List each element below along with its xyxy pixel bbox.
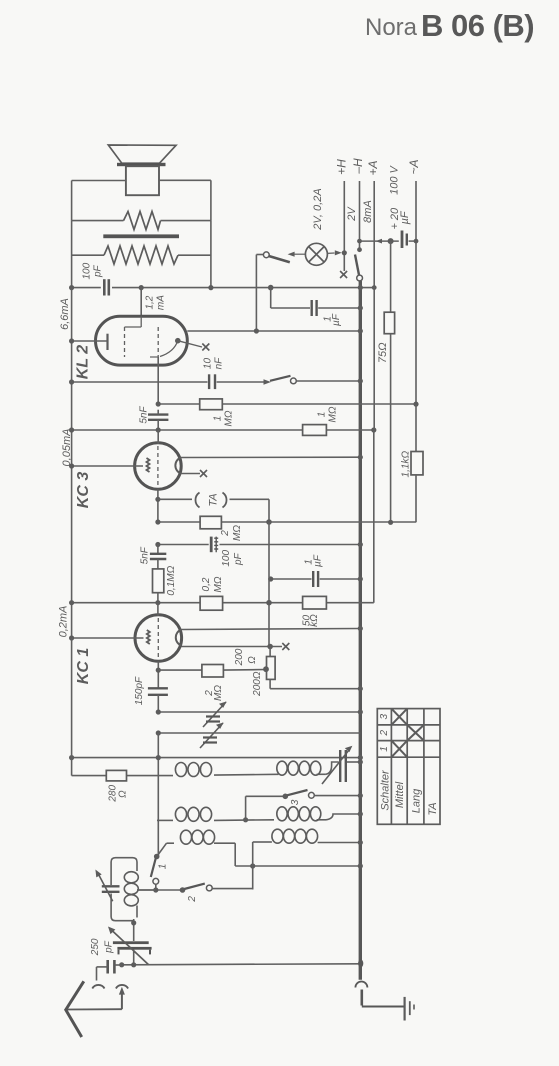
svg-text:nF: nF (214, 357, 225, 370)
svg-text:2V, 0,2A: 2V, 0,2A (312, 188, 324, 230)
svg-text:100 V: 100 V (388, 164, 400, 194)
svg-text:kΩ: kΩ (309, 614, 320, 627)
KC3 grid pin and dashes (157, 430, 159, 444)
antenna coil (vertical) (124, 872, 138, 906)
capacitor 1uF no.2 (312, 571, 314, 587)
speaker horn (108, 145, 176, 163)
capacitor 250pF series antenna (106, 960, 109, 974)
vertical x=158: 5nF no.2 and 0,1 MOhm chain (157, 545, 159, 554)
resistor 280 Ohm (106, 770, 126, 781)
wire bus to ground (362, 1006, 404, 1008)
switch -H to bus (357, 247, 362, 252)
wire y=712 (tuning cap row 1) (158, 711, 360, 713)
wire y=544.5 with 100pF (158, 544, 209, 546)
coil row B right (277, 807, 321, 821)
x mark KL2 top cap (202, 344, 209, 351)
svg-text:150pF: 150pF (134, 676, 145, 705)
resistor 1 MOhm no.2 (303, 425, 327, 436)
variable capacitor main (row A to bus) (339, 750, 341, 782)
svg-text:pF: pF (93, 264, 104, 278)
wire KC3 bottom pin (157, 489, 159, 522)
svg-text:10: 10 (203, 358, 214, 370)
vertical link x=270 (268, 522, 270, 647)
junction dots rail y=287.6 (69, 285, 74, 290)
wire riser x=252.7 (252, 842, 254, 890)
svg-text:8mA: 8mA (362, 200, 374, 223)
junction dot left rail cathode (69, 338, 74, 343)
svg-text:100: 100 (221, 550, 232, 567)
svg-text:2V: 2V (346, 206, 358, 222)
svg-text:KC 1: KC 1 (75, 648, 92, 685)
KC3 cathode (72, 465, 143, 467)
capacitor 5nF no.2 (150, 553, 166, 555)
coil row A right (277, 761, 321, 775)
svg-text:2: 2 (187, 896, 198, 903)
wire B+ rail y=287.6 (72, 287, 375, 289)
wire to TA jack (158, 498, 192, 500)
resistor 0,2 MOhm (200, 596, 223, 610)
speaker horn base bar (117, 163, 166, 166)
svg-text:1,1kΩ: 1,1kΩ (400, 451, 411, 478)
wire y=757.6 (72, 757, 361, 759)
KL2 cathode (106, 334, 108, 350)
SECTION: top supply rails (344, 181, 416, 404)
svg-text:1: 1 (379, 746, 390, 752)
coil row C left (180, 830, 214, 844)
x mark +H end (340, 271, 347, 278)
svg-text:1,2: 1,2 (145, 295, 156, 309)
capacitor 20uF electrolytic (401, 231, 404, 249)
wire row C left coil with riser (158, 843, 167, 855)
x mark KC3 (200, 470, 207, 477)
coil row A left (175, 763, 211, 777)
wire TA to corner (230, 498, 270, 500)
resistor 2 MOhm (KC1 grid leak) (202, 665, 224, 678)
svg-text:MΩ: MΩ (224, 410, 235, 426)
svg-text:B 06 (B): B 06 (B) (421, 8, 534, 43)
svg-text:–H: –H (351, 158, 365, 175)
resistor 50 kOhm (303, 596, 327, 609)
switch 3 (246, 795, 283, 797)
wire KC3 anode to bus (181, 456, 360, 458)
wire +A continues down (373, 287, 375, 431)
capacitor 150pF (148, 687, 168, 689)
wire KC1 bottom pin (157, 661, 159, 687)
svg-text:3: 3 (290, 799, 301, 805)
svg-text:MΩ: MΩ (232, 525, 243, 541)
svg-text:TA: TA (208, 493, 220, 506)
speaker body (126, 166, 159, 195)
wire KL2 grid pin from rail (140, 288, 142, 317)
wire y=602.7 with 0,2MOhm and 50kOhm (72, 602, 374, 604)
wire +A rail (373, 181, 375, 287)
svg-text:TA: TA (427, 802, 439, 815)
wire -H rail (359, 181, 361, 250)
resistor 1 MOhm no.1 (200, 399, 223, 410)
wire y=866 (235, 865, 360, 867)
svg-text:MΩ: MΩ (328, 406, 339, 422)
svg-text:3: 3 (379, 713, 390, 719)
wire lamp-switch stub down (255, 255, 257, 332)
wire coil to switch row (137, 889, 156, 891)
capacitor 1uF no.1 (311, 300, 313, 316)
small arrow on +A at y 241 (376, 239, 382, 244)
svg-text:0,1MΩ: 0,1MΩ (166, 565, 177, 595)
lamp 2V,0.2A (305, 243, 327, 265)
svg-text:5nF: 5nF (139, 546, 150, 564)
svg-text:+A: +A (366, 160, 380, 175)
svg-text:KL 2: KL 2 (75, 345, 92, 379)
svg-text:Schalter: Schalter (379, 769, 391, 811)
svg-text:pF: pF (233, 552, 244, 566)
antenna trimmer capacitor (102, 885, 120, 887)
resistor 2 MOhm (KC3) (200, 516, 221, 529)
svg-text:Ω: Ω (247, 656, 258, 664)
x mark KC1 grid (282, 643, 289, 650)
switch 1 (154, 854, 160, 860)
KC3 anode arc (175, 458, 181, 474)
wire 1uF no.1 branch (y=308) (270, 288, 272, 308)
svg-text:mA: mA (156, 295, 167, 310)
wire grid KC3 y=430 with 1 MOhm no.2 (72, 429, 374, 431)
svg-text:MΩ: MΩ (213, 576, 224, 592)
resistor zigzag transformer winding (104, 246, 178, 264)
TA jack arcs (195, 493, 199, 508)
wire KL2 bottom pin (157, 357, 159, 404)
switch 2 (180, 887, 186, 893)
wire cap bottom plate down (133, 950, 135, 965)
coil row C right (272, 829, 318, 843)
resistor 1,1 kOhm on ~A line (415, 404, 417, 451)
bus bottom curl (355, 982, 367, 988)
svg-text:Mittel: Mittel (394, 781, 406, 808)
svg-text:1: 1 (317, 412, 328, 418)
transformer core bar (103, 234, 179, 238)
junction dots wire y=241 (357, 239, 362, 244)
ground symbol (404, 997, 406, 1021)
svg-text:pF: pF (104, 940, 115, 954)
wire KC3 grid cap (181, 473, 200, 475)
svg-text:Nora: Nora (365, 14, 418, 41)
svg-text:KC 3: KC 3 (75, 472, 92, 509)
svg-text:Lang: Lang (410, 788, 422, 813)
switch on heater line (264, 379, 272, 385)
tube KC3 envelope (135, 443, 182, 490)
KC1 cathode (72, 637, 144, 639)
antenna loop wiring (111, 858, 137, 941)
speaker loop wiring (72, 180, 211, 220)
resistor zigzag speaker coil (124, 212, 161, 230)
svg-text:µF: µF (313, 554, 324, 567)
wire y=890 antenna row (137, 889, 183, 891)
lamp left arrow (288, 252, 295, 257)
capacitor 100pF no.2 (210, 537, 213, 553)
capacitor 10nF (208, 374, 210, 389)
junction dot +H/lamp (342, 250, 347, 255)
wire left rail (71, 288, 73, 638)
resistor 0,1 MOhm (153, 569, 164, 593)
wire -H to electrolytic to ~A (y=241) (360, 240, 399, 242)
capacitor 100pF top (103, 279, 106, 295)
svg-text:6,6mA: 6,6mA (59, 298, 71, 330)
wire KC1 anode to bus (181, 629, 360, 630)
wire y=522 with 2 MOhm (KC3 anode load row) (158, 521, 416, 523)
svg-text:µF: µF (331, 313, 342, 326)
wire ~A rail (415, 181, 417, 404)
lamp right arrow (327, 252, 334, 254)
svg-text:75Ω: 75Ω (377, 342, 389, 363)
svg-text:2: 2 (220, 530, 231, 537)
tuning capacitor 250pF (main gang) (113, 941, 149, 944)
svg-text:0,05mA: 0,05mA (61, 429, 73, 467)
svg-text:0,2: 0,2 (201, 577, 212, 591)
variable trimmer arrow no.2 (200, 723, 223, 748)
KC1 anode arc (176, 630, 182, 646)
wire switch3 down link (245, 796, 247, 820)
svg-text:MΩ: MΩ (213, 685, 224, 701)
resistor 75 Ohm (390, 241, 392, 312)
wire heater return y=382 with 10nF (72, 381, 208, 383)
svg-text:1: 1 (213, 416, 224, 422)
MAIN BUS (thick vertical) (359, 281, 362, 980)
svg-text:200: 200 (234, 648, 245, 666)
table X marks (391, 709, 424, 758)
wire y=775.6 with 280 Ohm and coils row A (72, 762, 361, 776)
capacitor 5nF no.1 (148, 413, 168, 415)
wire y=733 (tuning cap row 2) (158, 732, 360, 734)
svg-text:200Ω: 200Ω (252, 671, 263, 697)
svg-text:Ω: Ω (117, 790, 128, 798)
wire +H rail (343, 181, 345, 271)
junction dot loop bottom (131, 920, 136, 925)
wire KC1 grid cap to x (181, 646, 282, 648)
antenna plug chevron (65, 981, 84, 1010)
wire row B baseline (157, 814, 360, 820)
antenna socket arcs (96, 967, 98, 981)
antenna plug pin with arrow (119, 987, 125, 995)
transformer primary leads (72, 221, 211, 288)
svg-text:2: 2 (379, 729, 390, 736)
tube KL2 envelope (96, 316, 188, 365)
KC1 grid pin and dashes (157, 603, 159, 616)
svg-text:5nF: 5nF (139, 405, 150, 423)
switch lamp (dial light) (256, 254, 263, 256)
wire KL2 right to bus y=331 (187, 330, 360, 332)
KL2 grids (dashed) (140, 316, 142, 327)
wire y=670 to 2 MOhm and potentiometer (158, 669, 202, 671)
svg-text:~A: ~A (407, 159, 421, 174)
svg-text:+H: +H (334, 159, 348, 175)
wire antenna row to bus y=964.8 (122, 964, 361, 965)
tube KC1 envelope (135, 615, 182, 662)
potentiometer 200 Ohm (269, 647, 271, 657)
variable trimmer arrow no.1 (203, 702, 226, 727)
wire pot bottom to bus (270, 688, 360, 690)
KL2 anode and top-cap lead (175, 338, 181, 344)
svg-text:1: 1 (158, 864, 169, 870)
SECTION: switch table (377, 709, 440, 825)
wire plug to chevron (67, 1008, 122, 1010)
coil row B left (175, 807, 211, 821)
svg-text:µF: µF (399, 210, 411, 224)
wire 1uF no.2 branch y=579 (271, 578, 312, 580)
svg-text:100: 100 (82, 262, 93, 279)
svg-text:250: 250 (90, 938, 101, 956)
svg-text:0,2mA: 0,2mA (58, 606, 70, 638)
wire anode KL2 y=404 with 1 MOhm (158, 403, 200, 405)
